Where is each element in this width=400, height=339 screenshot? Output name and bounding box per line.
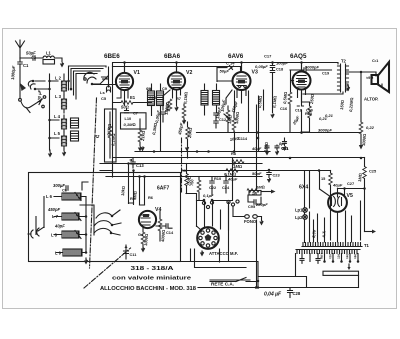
svg-text:V2: V2 xyxy=(186,70,192,76)
svg-text:110: 110 xyxy=(328,254,332,260)
svg-text:C8: C8 xyxy=(147,87,153,92)
svg-text:1000Ω: 1000Ω xyxy=(234,112,240,125)
svg-text:L 3: L 3 xyxy=(55,94,62,99)
resistor C25 right column xyxy=(357,158,377,234)
dash-dot vertical band switch link xyxy=(90,98,97,268)
V2 cathode ground xyxy=(164,92,179,112)
svg-text:C27: C27 xyxy=(347,181,354,186)
svg-text:R10: R10 xyxy=(214,176,221,181)
svg-text:RETE C.A.: RETE C.A. xyxy=(211,281,234,286)
svg-text:150Ω: 150Ω xyxy=(263,142,269,152)
bottom bus xyxy=(198,287,359,289)
cathode resistor R1 50ohm xyxy=(113,90,152,110)
resistor 1W h xyxy=(247,189,259,193)
coil L3 xyxy=(55,94,67,113)
capacitor C28 stem xyxy=(289,296,291,298)
arrow to voltage panel xyxy=(348,264,350,267)
coil L8 xyxy=(51,231,86,238)
volume pot 0,5M xyxy=(224,106,233,132)
voltage selector panel xyxy=(323,271,359,287)
coil L7 xyxy=(47,207,86,220)
caps 40uF C31 cluster xyxy=(251,145,289,156)
svg-text:6AV6: 6AV6 xyxy=(228,53,244,60)
svg-text:125: 125 xyxy=(337,253,341,259)
capacitor C1 1000uF xyxy=(10,58,29,80)
svg-text:250Ω: 250Ω xyxy=(309,94,315,105)
svg-text:L 6: L 6 xyxy=(46,194,53,199)
svg-text:Lp1: Lp1 xyxy=(295,208,303,213)
svg-text:1MΩ: 1MΩ xyxy=(357,173,363,182)
svg-text:C6: C6 xyxy=(62,188,68,193)
svg-text:C19: C19 xyxy=(322,71,330,76)
output transformer T2 xyxy=(338,59,349,93)
choke L10 box xyxy=(121,109,147,130)
svg-text:20kΩ: 20kΩ xyxy=(187,127,193,139)
svg-text:C11: C11 xyxy=(130,252,138,257)
dash-dot diagonal tuning link xyxy=(84,248,131,288)
resistor R3 xyxy=(138,119,146,152)
svg-text:V1: V1 xyxy=(134,70,140,76)
bus AVC y151 xyxy=(135,151,270,153)
svg-text:3000pF: 3000pF xyxy=(318,128,332,133)
coil L4 xyxy=(50,114,79,132)
V2 bypass caps xyxy=(151,90,170,135)
socket feed wires xyxy=(186,194,201,231)
svg-text:1MΩ: 1MΩ xyxy=(233,164,242,169)
svg-text:750: 750 xyxy=(189,179,195,186)
svg-text:0,5MΩ: 0,5MΩ xyxy=(257,96,263,108)
resistor 0,22M right xyxy=(359,122,375,150)
svg-text:R6: R6 xyxy=(148,195,154,200)
svg-text:0,21: 0,21 xyxy=(325,113,334,118)
svg-text:C5: C5 xyxy=(101,96,107,101)
svg-text:6BA6: 6BA6 xyxy=(164,53,181,60)
svg-text:100 µF: 100 µF xyxy=(37,89,43,103)
misc small labels xyxy=(133,58,379,152)
wire antenna stem to switch xyxy=(19,67,21,98)
cap C14 right of V4 xyxy=(156,224,174,235)
pilot lamp Lp1 xyxy=(295,208,307,213)
detector cluster labels xyxy=(189,151,244,200)
tube V1 6BE6 xyxy=(116,66,140,90)
octal socket ATTACCO M.F. xyxy=(197,227,219,249)
socket ground xyxy=(200,251,204,257)
svg-text:FONO: FONO xyxy=(244,219,257,224)
bus y170.5 xyxy=(100,170,331,172)
svg-text:50pF: 50pF xyxy=(252,171,262,176)
svg-text:1000Ω: 1000Ω xyxy=(143,234,149,247)
svg-text:L 5: L 5 xyxy=(54,131,61,136)
IF transformer MF2 xyxy=(201,84,220,115)
svg-text:100Ω: 100Ω xyxy=(164,102,170,112)
dash-dot gang line xyxy=(181,138,183,192)
svg-text:L1: L1 xyxy=(46,51,52,56)
coil L1 xyxy=(35,51,57,65)
lower bank vertical wires xyxy=(36,182,94,253)
6AF7 cathode resistor xyxy=(138,228,149,253)
V2 screen resistor xyxy=(182,92,189,125)
pilot lamp wires xyxy=(305,171,310,243)
bus y132 detector line xyxy=(197,133,365,189)
svg-text:C95: C95 xyxy=(248,204,256,209)
trimmer C11 xyxy=(124,245,138,259)
svg-text:C18: C18 xyxy=(276,67,284,72)
resistor feed 6X4 xyxy=(321,171,332,241)
svg-text:5000pF: 5000pF xyxy=(305,65,319,70)
left contacts lower bank xyxy=(28,227,44,238)
resistor R9 vertical xyxy=(181,164,192,194)
svg-text:6,3V: 6,3V xyxy=(311,229,317,238)
wires V3 area down xyxy=(257,90,264,164)
T1 pin wires below xyxy=(325,254,359,261)
coil L9 xyxy=(55,249,86,256)
svg-text:450pF: 450pF xyxy=(47,207,61,212)
wire left bank top xyxy=(35,81,58,89)
svg-text:Lp2: Lp2 xyxy=(295,215,303,220)
svg-text:C23: C23 xyxy=(273,173,281,178)
vertical feed wire xyxy=(49,74,51,150)
svg-text:0,1MΩ: 0,1MΩ xyxy=(106,124,112,136)
heater bus labels xyxy=(311,229,327,239)
svg-text:C1: C1 xyxy=(23,63,29,68)
antenna xyxy=(16,40,25,58)
svg-text:150Ω: 150Ω xyxy=(339,100,345,110)
arrow taps on bus xyxy=(140,146,144,152)
ground T2 secondary xyxy=(346,85,350,92)
svg-text:C7: C7 xyxy=(133,111,138,116)
bus y158 xyxy=(113,157,365,159)
svg-text:L 4: L 4 xyxy=(54,114,61,119)
tube V3 6AV6 xyxy=(233,66,258,98)
svg-text:E1: E1 xyxy=(130,95,136,100)
svg-text:RET: RET xyxy=(320,253,325,259)
svg-text:ALLOCCHIO BACCHINI - MOD. 318: ALLOCCHIO BACCHINI - MOD. 318 xyxy=(100,286,196,292)
svg-text:6AF7: 6AF7 xyxy=(157,186,169,192)
tube V4 6AF7 magic eye xyxy=(139,207,162,228)
top B+ bus xyxy=(113,63,339,178)
svg-text:40µF: 40µF xyxy=(251,146,262,151)
svg-text:C28: C28 xyxy=(293,291,301,296)
ground left bank xyxy=(48,150,52,158)
resistor 1W box xyxy=(249,191,261,196)
junction dots on buses xyxy=(289,157,292,160)
6AF7 right resistor xyxy=(158,211,166,243)
mains feed wires xyxy=(210,254,307,288)
svg-text:ATTACCO M.F.: ATTACCO M.F. xyxy=(209,251,238,256)
label RETE C.A. xyxy=(210,280,250,286)
svg-text:1MΩ: 1MΩ xyxy=(132,191,138,200)
svg-text:C9: C9 xyxy=(162,86,168,91)
band switch hooks xyxy=(84,72,96,83)
socket top pins wires xyxy=(197,158,233,230)
socket box wiring xyxy=(181,249,259,282)
lower left box xyxy=(29,173,181,262)
pilot lamp Lp2 xyxy=(295,215,307,220)
cap C27 40uF xyxy=(332,181,354,188)
oscillator box with R2 xyxy=(94,109,116,162)
svg-text:0,1MΩ: 0,1MΩ xyxy=(272,96,278,108)
capacitor C28 0,04uF xyxy=(264,288,301,298)
svg-text:0,1MΩ: 0,1MΩ xyxy=(183,92,189,104)
svg-text:V5: V5 xyxy=(347,193,353,199)
svg-text:50Ω: 50Ω xyxy=(121,105,129,110)
coupling cap C15 V3 grid xyxy=(226,90,239,113)
svg-text:T2: T2 xyxy=(341,59,347,64)
band switch contacts left xyxy=(28,81,35,89)
svg-text:0,22: 0,22 xyxy=(366,125,375,130)
svg-text:C•1: C•1 xyxy=(372,58,379,63)
speaker wires down xyxy=(376,72,382,86)
tube V5 6X4 rectifier xyxy=(328,193,353,212)
svg-text:160: 160 xyxy=(353,253,357,259)
svg-text:R8: R8 xyxy=(231,151,237,156)
svg-text:220pF: 220pF xyxy=(255,202,268,207)
svg-text:con valvole miniature: con valvole miniature xyxy=(112,276,191,282)
T2 secondary to speaker xyxy=(346,72,376,85)
svg-text:C13: C13 xyxy=(136,163,144,168)
svg-text:R9: R9 xyxy=(181,168,187,173)
6X4 heater wires xyxy=(314,211,352,242)
bus y177 xyxy=(106,176,262,178)
svg-text:C114: C114 xyxy=(238,136,248,141)
band switch wire loom xyxy=(69,66,107,99)
svg-text:C17: C17 xyxy=(264,54,272,59)
6AF7 wires xyxy=(120,162,154,205)
detector caps column xyxy=(214,113,227,128)
svg-text:L 2: L 2 xyxy=(55,76,62,81)
ground lower bank xyxy=(84,258,88,265)
capacitor C13 xyxy=(129,158,144,168)
trimmer C4 xyxy=(100,76,108,84)
svg-text:C 14: C 14 xyxy=(226,61,235,66)
right column wire xyxy=(360,72,363,240)
screen supply line xyxy=(113,67,241,73)
T2 primary connections xyxy=(303,63,343,94)
svg-text:1MΩ: 1MΩ xyxy=(227,115,233,124)
svg-text:C16: C16 xyxy=(280,106,288,111)
bus y163.5 xyxy=(100,163,262,165)
svg-text:318 - 318/A: 318 - 318/A xyxy=(131,266,174,272)
tube V2 6BA6 xyxy=(168,66,193,98)
plate leads xyxy=(125,63,302,106)
rotary wafer switch xyxy=(94,210,121,235)
capacitor C2 50uF xyxy=(20,51,37,63)
svg-text:3000Ω: 3000Ω xyxy=(361,134,367,147)
6AQ5 cathode network xyxy=(291,92,332,133)
resistor 20k below V2 xyxy=(186,122,193,158)
ground L5 xyxy=(62,149,66,157)
capacitor C14 at V3 grid xyxy=(217,61,235,82)
svg-text:ALTOP.: ALTOP. xyxy=(364,97,378,102)
svg-text:C10: C10 xyxy=(149,95,156,100)
svg-text:10kΩ: 10kΩ xyxy=(120,186,126,196)
trimmer caps lower bank xyxy=(75,193,81,239)
svg-text:6AQ5: 6AQ5 xyxy=(290,53,307,60)
svg-text:C25: C25 xyxy=(369,169,377,174)
mains switch xyxy=(236,278,258,282)
svg-text:T1: T1 xyxy=(364,243,370,248)
oscillator coil Ls xyxy=(100,86,111,101)
svg-text:R20: R20 xyxy=(305,111,312,116)
svg-text:C18: C18 xyxy=(295,109,302,113)
svg-text:Ls: Ls xyxy=(100,90,105,95)
ground after L1 xyxy=(58,58,64,68)
wire V1 grid xyxy=(93,84,116,86)
svg-text:V3: V3 xyxy=(252,70,258,76)
FONO jack xyxy=(233,215,264,226)
svg-text:50µF: 50µF xyxy=(220,69,230,74)
fono wire xyxy=(229,202,234,262)
svg-text:0,1MΩ: 0,1MΩ xyxy=(111,133,116,146)
socket terminals xyxy=(202,201,205,204)
svg-text:100pF: 100pF xyxy=(276,61,288,66)
coil L5 xyxy=(50,131,79,149)
svg-text:21kΩ: 21kΩ xyxy=(140,130,146,142)
wires below V3 to bus xyxy=(235,91,249,152)
B+ arrow mid xyxy=(256,185,276,194)
svg-text:1MΩ: 1MΩ xyxy=(256,185,265,190)
coil L6 xyxy=(46,193,86,200)
svg-text:0,04 µF: 0,04 µF xyxy=(264,292,282,298)
IF transformer MF1 xyxy=(146,84,168,152)
svg-text:0,5MΩ: 0,5MΩ xyxy=(282,92,288,104)
svg-text:C22: C22 xyxy=(209,185,217,190)
cap 5000pF to 6AQ5 xyxy=(290,65,332,76)
power transformer T1 xyxy=(296,243,370,254)
tube 6AQ5 xyxy=(293,65,311,98)
svg-text:A.T.: A.T. xyxy=(321,230,327,239)
svg-text:40µF: 40µF xyxy=(332,183,343,188)
loudspeaker ALTOP xyxy=(364,62,389,102)
6X4 plate wires xyxy=(318,169,346,197)
svg-text:140: 140 xyxy=(345,253,349,259)
svg-text:0,1MΩ: 0,1MΩ xyxy=(124,122,136,127)
svg-text:1W: 1W xyxy=(252,192,258,196)
svg-text:6X4: 6X4 xyxy=(299,185,308,191)
svg-text:L10: L10 xyxy=(125,116,132,121)
caps row above V3-6AQ5 xyxy=(255,54,288,113)
V3 cathode resistor xyxy=(229,91,247,142)
svg-text:C14: C14 xyxy=(166,230,174,235)
cap C6 300pF xyxy=(53,183,68,193)
coil L2 xyxy=(55,74,67,95)
cap C25 220pF xyxy=(248,195,268,209)
wire 1W column xyxy=(256,164,258,288)
6AQ5 grid resistor xyxy=(282,70,293,132)
svg-text:0,05µF: 0,05µF xyxy=(255,64,268,69)
svg-text:6BE6: 6BE6 xyxy=(104,53,120,60)
cap C23 xyxy=(252,169,280,183)
svg-text:40pF: 40pF xyxy=(54,224,65,229)
